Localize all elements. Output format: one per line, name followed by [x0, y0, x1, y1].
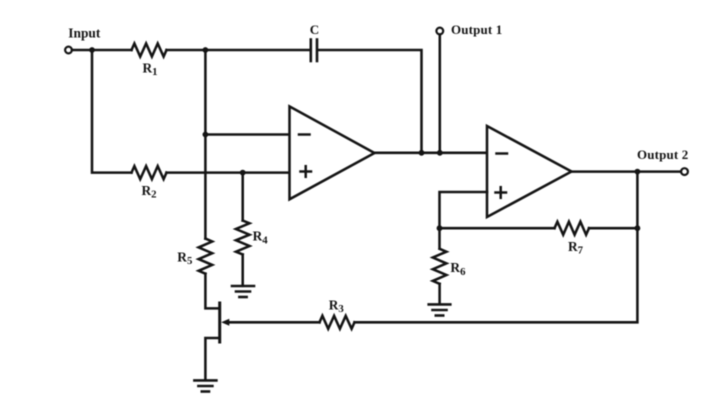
wire R4 vertical	[241, 173, 244, 221]
resistor R5	[199, 239, 213, 274]
transistor Q1	[205, 274, 229, 380]
output 2 terminal	[681, 168, 688, 175]
op-amp U2	[487, 126, 572, 217]
node top junction	[203, 47, 209, 53]
resistor R3	[320, 316, 355, 329]
svg-text:R6: R6	[450, 260, 466, 278]
svg-text:R3: R3	[329, 298, 345, 316]
svg-text:Output 1: Output 1	[451, 22, 502, 37]
resistor R1	[132, 44, 167, 57]
wire middle vertical	[204, 50, 207, 239]
wire R7 right	[589, 227, 637, 230]
wire output1 down	[439, 35, 442, 153]
svg-text:R2: R2	[142, 183, 157, 201]
resistor R2	[132, 166, 167, 179]
input terminal	[65, 47, 72, 54]
wire R7 left	[440, 227, 555, 230]
node minus input	[203, 132, 209, 138]
node R4 top	[240, 170, 246, 176]
resistor R7	[555, 222, 590, 235]
wire R2 to op-amp plus	[167, 171, 290, 174]
svg-text:R7: R7	[568, 239, 584, 257]
svg-text:R1: R1	[143, 61, 158, 79]
wire R6 to ground	[438, 284, 441, 304]
wire U2 output	[572, 170, 682, 173]
wire left branch down	[92, 50, 132, 173]
svg-text:C: C	[310, 22, 319, 37]
svg-text:Output 2: Output 2	[637, 147, 688, 162]
op-amp U1	[290, 106, 375, 199]
wire feedback right vertical	[355, 172, 638, 323]
node output2 branch	[635, 169, 641, 175]
wire R3 to gate	[227, 321, 320, 324]
node C feedback	[419, 150, 425, 156]
wire to op-amp minus	[205, 133, 289, 136]
wire R1 to capacitor	[167, 49, 311, 52]
wire U1 output	[375, 152, 488, 155]
output 1 terminal	[436, 28, 443, 35]
capacitor C	[311, 40, 317, 62]
wire R4 to ground	[241, 255, 244, 286]
node R6 top	[437, 225, 443, 231]
node R7 right	[635, 225, 641, 231]
resistor R4	[236, 221, 250, 255]
node input junction	[89, 47, 95, 53]
ground R4	[232, 286, 254, 297]
svg-text:R4: R4	[253, 229, 269, 247]
svg-text:Input: Input	[68, 26, 101, 41]
wire capacitor to corner	[317, 50, 421, 153]
resistor R6	[433, 249, 447, 284]
svg-text:R5: R5	[177, 249, 192, 267]
node output1 branch	[437, 150, 443, 156]
wire input to R1	[72, 49, 132, 52]
ground R6	[429, 304, 451, 315]
wire U2 plus input	[440, 192, 488, 249]
ground Q1	[194, 380, 216, 391]
